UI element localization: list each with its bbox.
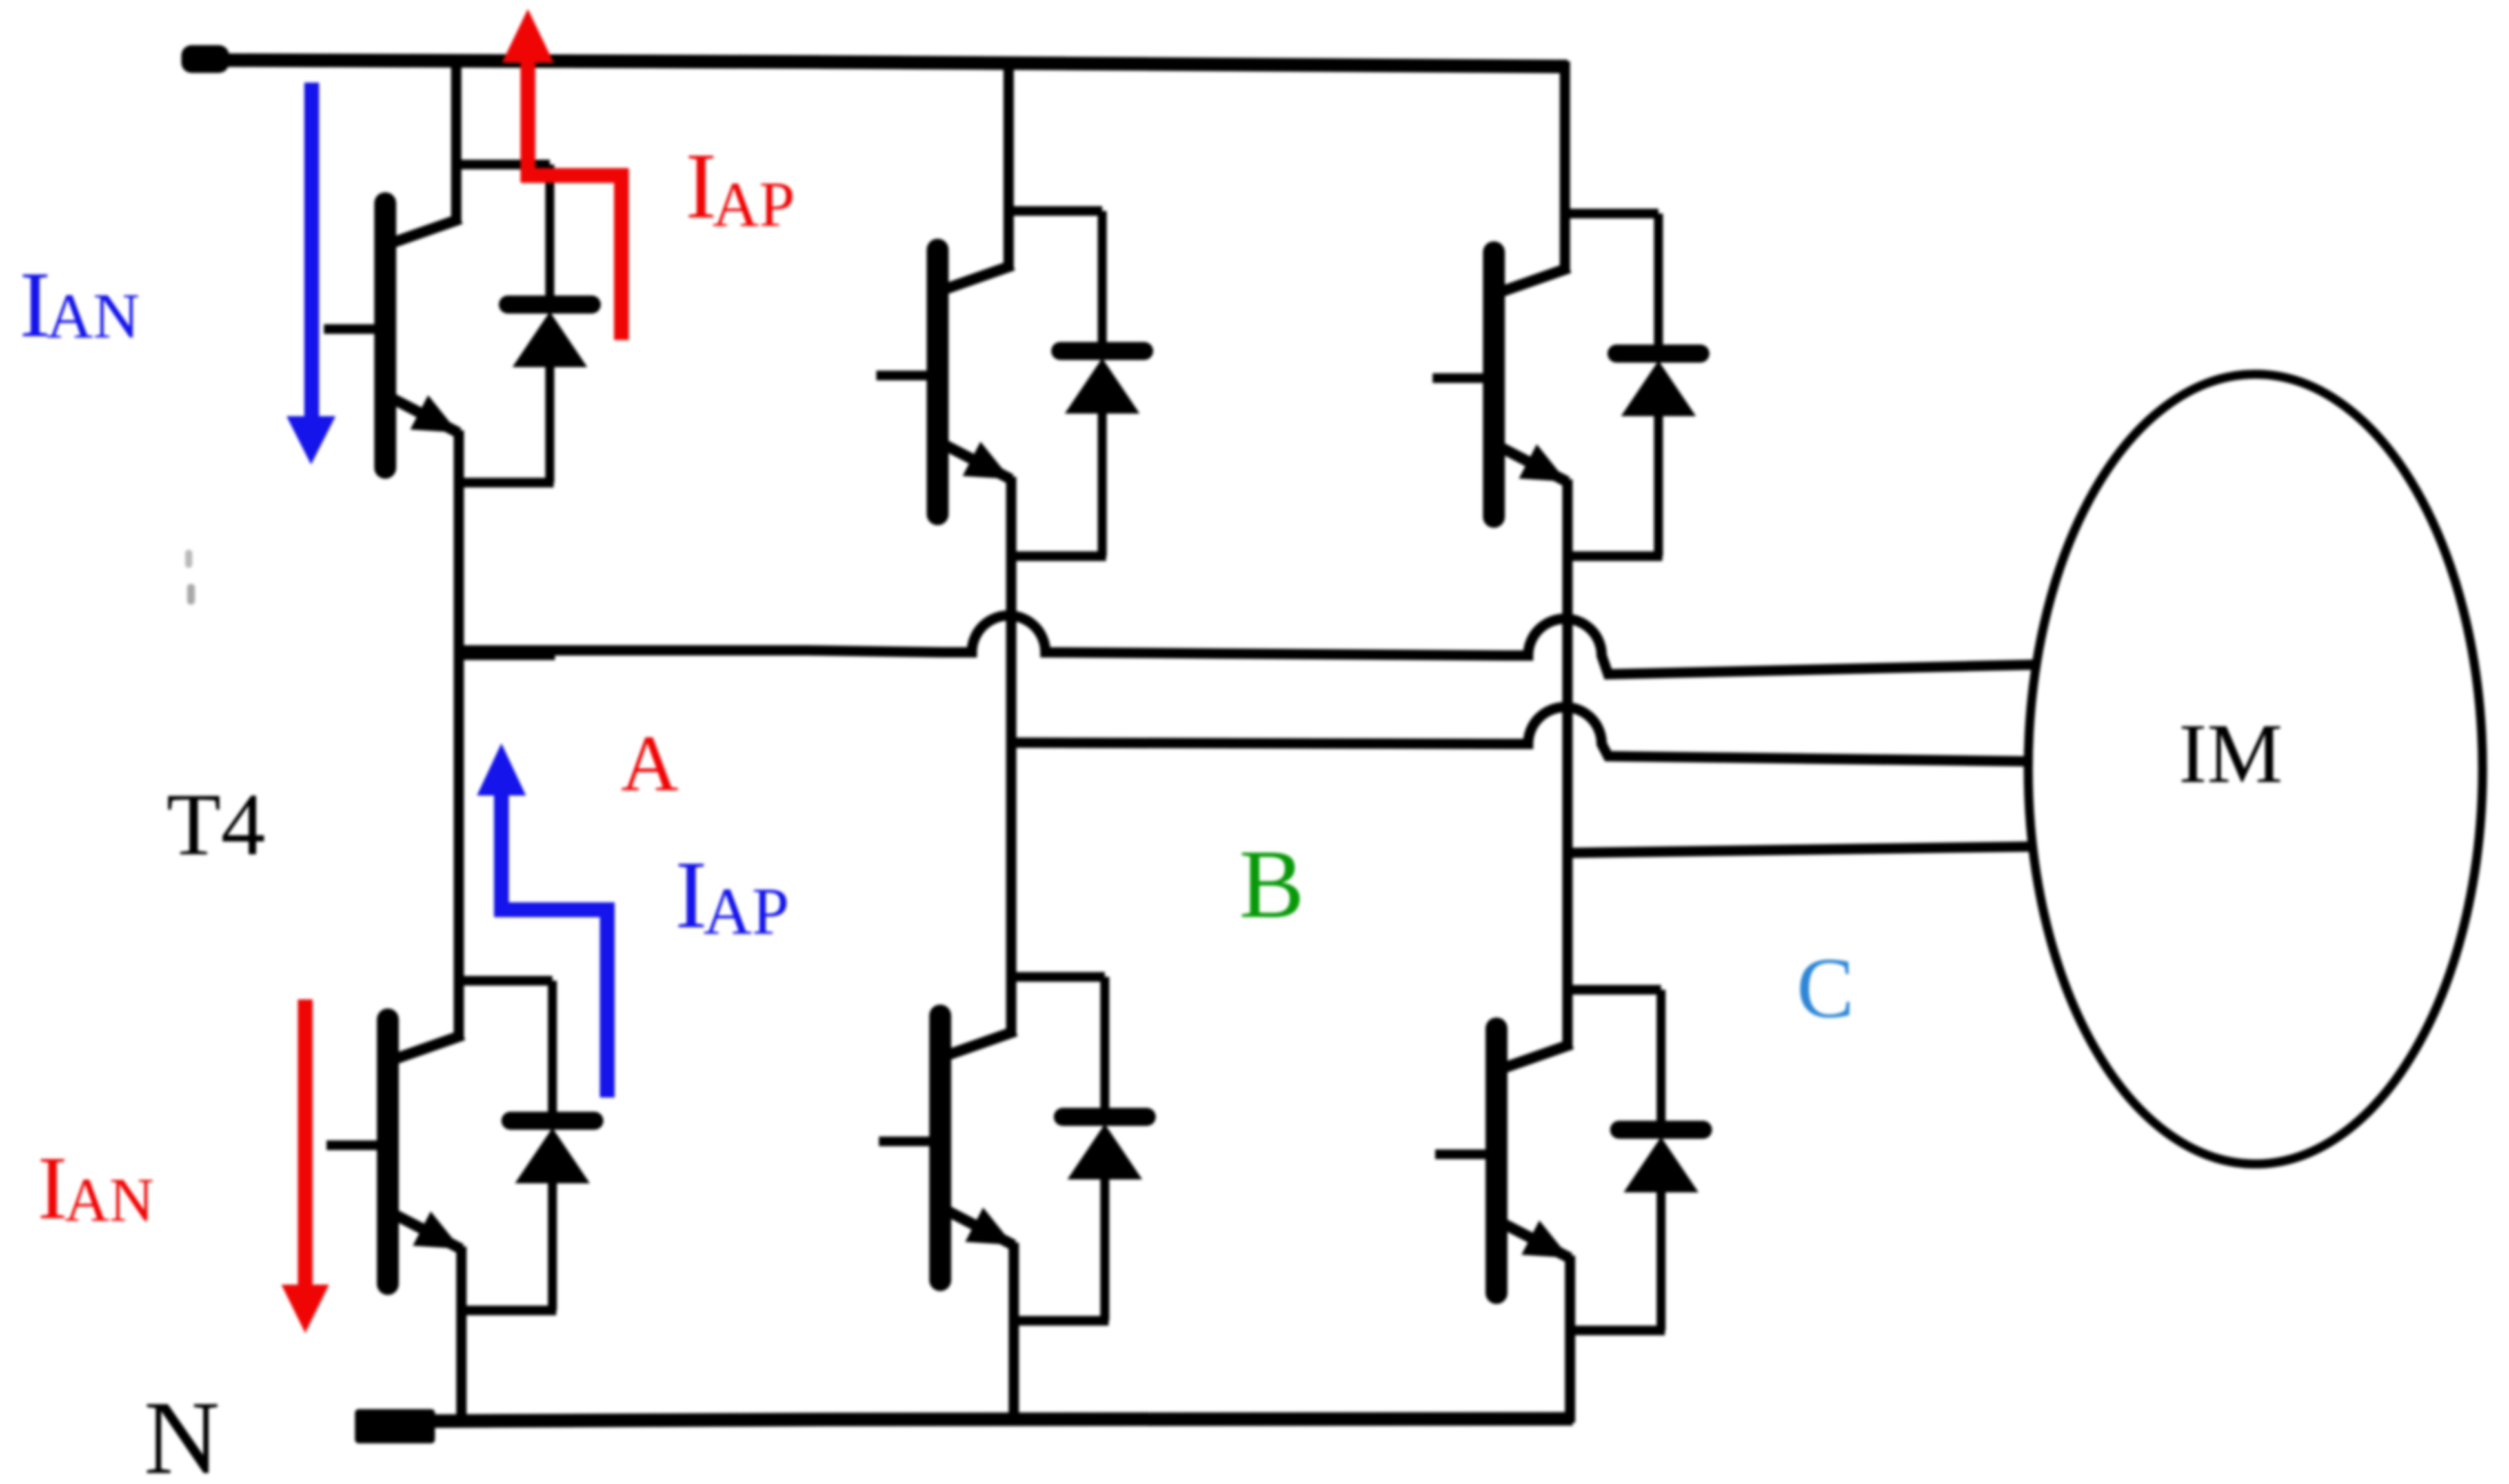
label node C (light blue)	[1797, 940, 1854, 1036]
wire emitter bar B bottom	[1009, 1316, 1109, 1326]
wire collector bar A top	[452, 160, 550, 170]
transistor T3 (B top)	[876, 211, 1013, 556]
transistor T6 (B bottom)	[879, 977, 1016, 1321]
wire leg B middle (T3 emitter to T6 collector)	[1006, 556, 1016, 981]
current arrow I_AP blue (middle, up along leg A)	[477, 743, 607, 1098]
diode D2 (C bottom)	[1619, 990, 1703, 1330]
label N terminal	[144, 1380, 220, 1484]
transistor T1 (A top)	[324, 165, 461, 483]
wire emitter bar C bottom	[1566, 1326, 1665, 1336]
label T4	[166, 775, 265, 874]
wire DC+ top rail	[181, 45, 1567, 73]
scan speck 2	[187, 584, 195, 605]
svg-text:B: B	[1239, 830, 1304, 938]
svg-text:T4: T4	[166, 775, 265, 874]
wire collector bar B top	[1004, 206, 1102, 216]
svg-text:A: A	[621, 719, 679, 808]
diode D6 (B bottom)	[1063, 977, 1147, 1321]
svg-text:AN: AN	[65, 1165, 154, 1234]
wire leg C lower (T2 emitter to N rail)	[1565, 1330, 1575, 1423]
wire emitter bar A bottom	[457, 1306, 556, 1316]
diode D5 (C top)	[1617, 214, 1700, 556]
svg-text:AP: AP	[703, 874, 789, 948]
svg-text:I: I	[37, 1138, 68, 1238]
scan speck 1	[185, 550, 192, 568]
label I_AP (red, top)	[685, 134, 795, 240]
wire leg C middle (T5 emitter to T2 collector)	[1562, 556, 1573, 994]
svg-text:IM: IM	[2179, 706, 2282, 801]
wire phase C output to IM	[1565, 847, 2033, 853]
label IM	[2179, 706, 2282, 801]
wire leg A middle (T1 emitter to T4 collector)	[454, 483, 464, 981]
transistor T5 (C top)	[1433, 214, 1569, 556]
label I_AN (red, bottom left)	[37, 1138, 154, 1238]
svg-text:AP: AP	[712, 168, 795, 240]
current arrow I_AN blue (top left, downward)	[287, 83, 336, 465]
wire collector bar A bottom	[454, 976, 552, 986]
current arrow I_AP red (top, up through rail)	[502, 9, 621, 340]
diode D3 (B top)	[1060, 211, 1144, 556]
transistor T2 (C bottom)	[1435, 990, 1572, 1330]
wire leg B upper (rail to T3)	[1003, 61, 1014, 216]
svg-text:AN: AN	[46, 280, 139, 352]
diode D1 (A top)	[508, 165, 592, 483]
wire leg A lower (T4 emitter to N rail)	[456, 1310, 467, 1416]
wire phase A output to IM (hops over legs B and C)	[456, 616, 2039, 674]
label node B (green)	[1239, 830, 1304, 938]
wire leg A upper (rail to T1)	[451, 60, 461, 169]
transistor T4 (A bottom)	[327, 981, 463, 1310]
current arrow I_AN red (bottom left, downward)	[281, 999, 329, 1333]
label I_AP (blue, middle)	[675, 841, 789, 948]
svg-text:C: C	[1797, 940, 1854, 1036]
wire leg C upper (rail corner to T5)	[1560, 61, 1570, 218]
induction motor IM (ellipse)	[2028, 374, 2483, 1164]
wire collector bar C top	[1560, 209, 1658, 219]
diode D4 (A bottom)	[510, 981, 594, 1310]
wire emitter bar B top	[1007, 552, 1106, 561]
wire leg B lower (T6 emitter to N rail)	[1009, 1321, 1019, 1417]
label node A (red)	[621, 719, 679, 808]
svg-text:I: I	[675, 841, 707, 948]
wire N bottom rail	[355, 1409, 1573, 1443]
svg-text:N: N	[144, 1380, 220, 1484]
wire collector bar B bottom	[1007, 972, 1105, 982]
wire emitter bar C top	[1563, 552, 1662, 561]
wire collector bar C bottom	[1563, 985, 1661, 995]
label I_AN (blue, top left)	[19, 252, 139, 357]
wire emitter bar A top	[454, 478, 554, 488]
wire phase B output to IM (hops over leg C)	[1009, 707, 2029, 761]
